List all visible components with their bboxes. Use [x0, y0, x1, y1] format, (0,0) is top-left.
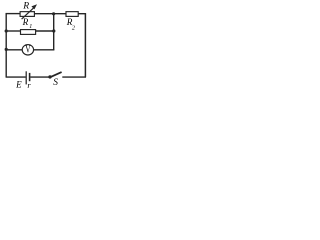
svg-text:2: 2: [72, 25, 75, 32]
voltmeter U1 circle: [22, 45, 33, 55]
node D junction dot left voltmeter: [5, 48, 8, 51]
resistor R (rheostat box): [20, 12, 34, 17]
rheostat arrow: [22, 4, 37, 19]
wire middle vertical: [53, 14, 55, 50]
switch S pivot dot: [48, 75, 51, 78]
wire left vertical: [5, 13, 7, 77]
svg-text:E: E: [15, 80, 22, 90]
wire bottom-left to battery: [6, 76, 26, 78]
battery E long plate: [25, 71, 27, 84]
svg-text:V: V: [25, 45, 31, 56]
wire R2 to top-right corner: [78, 13, 86, 15]
svg-text:S: S: [53, 78, 58, 88]
resistor R1: [21, 30, 36, 35]
node A junction dot top: [52, 12, 55, 15]
wire R1 branch right: [35, 30, 53, 32]
node C junction dot left R1: [5, 29, 8, 32]
wire right vertical: [84, 13, 86, 77]
wire rheostat to node A: [34, 13, 66, 15]
resistor R2: [66, 12, 78, 17]
svg-text:R: R: [22, 1, 29, 12]
wire switch to bottom-right corner: [62, 76, 86, 78]
svg-text:1: 1: [29, 24, 32, 30]
svg-text:r: r: [27, 81, 31, 90]
wire voltmeter branch left: [6, 49, 22, 51]
wire R1 branch left: [6, 30, 20, 32]
wire top segment to rheostat: [6, 13, 21, 15]
wire voltmeter branch right: [34, 49, 55, 51]
node B junction dot middle: [52, 29, 55, 32]
wire battery to switch: [30, 76, 49, 78]
battery E short plate: [29, 73, 31, 81]
svg-text:R: R: [22, 17, 29, 27]
switch S lever: [51, 72, 62, 77]
